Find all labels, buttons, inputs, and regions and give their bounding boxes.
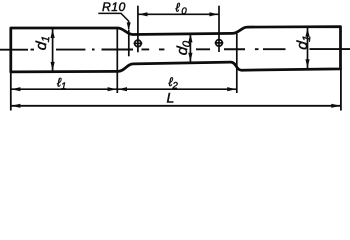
dimension d1 right xyxy=(307,27,309,69)
extension line l2 right xyxy=(236,33,238,93)
gauge mark tick right xyxy=(215,42,224,44)
leader R10 overshoot to centerline xyxy=(128,30,130,56)
dimension line l1/l2 xyxy=(11,88,237,90)
specimen outline xyxy=(11,27,341,72)
gauge mark tick left xyxy=(134,42,143,44)
centerline xyxy=(0,48,350,51)
svg-text:d1: d1 xyxy=(33,35,53,51)
extension line shared l1/l2 xyxy=(116,28,118,93)
leader R10 xyxy=(98,13,128,29)
dimension d1 left xyxy=(52,28,54,71)
svg-text:d0: d0 xyxy=(174,39,194,56)
dimension line l0 xyxy=(138,13,219,15)
extension line right (L) xyxy=(340,68,342,111)
dimension d0 xyxy=(189,33,191,63)
svg-text:d1: d1 xyxy=(294,34,314,50)
svg-text:R10: R10 xyxy=(102,0,126,14)
dimension line L xyxy=(11,105,341,107)
gauge mark circle right xyxy=(216,40,223,47)
gauge mark circle left xyxy=(135,40,142,47)
gauge mark line left xyxy=(137,6,139,53)
gauge mark line right xyxy=(218,6,220,52)
svg-text:L: L xyxy=(167,90,175,106)
extension line left (L, l1) xyxy=(10,71,12,111)
